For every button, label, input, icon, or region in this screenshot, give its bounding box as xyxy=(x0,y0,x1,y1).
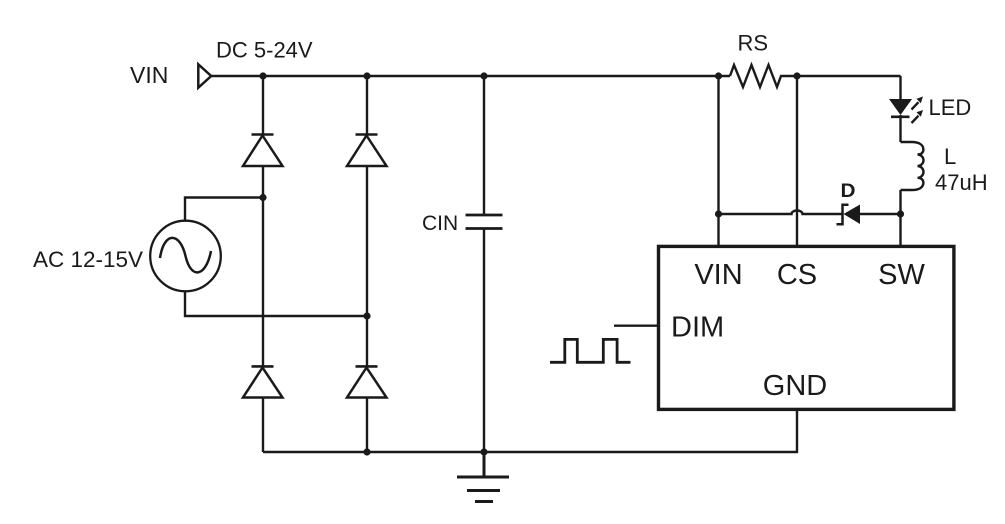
junction node ground rail / ground symbol xyxy=(480,448,487,455)
wire bridge column A upper xyxy=(262,76,264,135)
AC source V1 xyxy=(150,221,221,292)
wire top rail left xyxy=(212,75,731,77)
bridge diode D3 xyxy=(243,366,283,397)
svg-text:D: D xyxy=(841,181,856,202)
resistor RS xyxy=(730,65,785,87)
junction node top rail / bridge column B xyxy=(363,72,370,79)
wire CIN bottom xyxy=(483,229,485,453)
bridge diode D1 xyxy=(243,135,283,167)
PWM dimming waveform xyxy=(550,339,631,362)
wire LED to inductor xyxy=(899,115,901,142)
svg-text:DIM: DIM xyxy=(671,312,724,344)
svg-text:VIN: VIN xyxy=(694,259,742,291)
wire diode row with hop over CS column xyxy=(719,211,843,214)
svg-text:SW: SW xyxy=(878,259,925,291)
wire AC source bottom lead xyxy=(185,291,367,316)
svg-text:RS: RS xyxy=(738,31,769,56)
inductor L xyxy=(901,142,924,190)
svg-text:CIN: CIN xyxy=(422,212,458,235)
wire CS pin column xyxy=(796,76,798,246)
LED xyxy=(889,97,923,124)
wire bridge column B upper xyxy=(366,76,368,135)
junction node SW column / diode row xyxy=(897,210,904,217)
junction node top rail / bridge column A xyxy=(259,72,266,79)
bridge diode D2 xyxy=(347,135,387,167)
svg-text:AC 12-15V: AC 12-15V xyxy=(33,247,143,272)
junction node top rail / CIN xyxy=(480,72,487,79)
junction node top rail / VIN pin column xyxy=(715,72,722,79)
svg-text:GND: GND xyxy=(763,370,827,402)
wire DIM pin lead xyxy=(614,325,659,327)
junction node top rail / CS pin column xyxy=(793,72,800,79)
wire AC source top lead xyxy=(185,198,263,221)
junction node column A / AC top xyxy=(259,194,266,201)
wire bridge column B middle xyxy=(366,166,368,366)
svg-text:LED: LED xyxy=(929,95,972,120)
wire bridge column A lower xyxy=(262,398,264,453)
diode D (schottky) xyxy=(837,205,901,225)
wire top rail right xyxy=(785,75,901,77)
junction node VIN column / diode row xyxy=(715,210,722,217)
svg-text:DC 5-24V: DC 5-24V xyxy=(216,38,313,63)
wire bridge column B lower xyxy=(366,398,368,453)
wire SW column upper xyxy=(899,76,901,99)
wire VIN pin column xyxy=(717,76,719,246)
capacitor CIN xyxy=(466,215,503,229)
svg-text:47uH: 47uH xyxy=(935,170,988,195)
svg-text:CS: CS xyxy=(777,259,817,291)
svg-text:VIN: VIN xyxy=(130,62,168,88)
wire CIN top xyxy=(483,76,485,215)
ground xyxy=(457,452,509,502)
junction node column B / AC bottom xyxy=(363,312,370,319)
svg-text:L: L xyxy=(944,144,956,169)
wire GND pin to ground rail xyxy=(263,409,797,452)
wire SW column lower xyxy=(899,190,901,246)
input terminal VIN xyxy=(198,64,211,87)
wire bridge column A middle xyxy=(262,166,264,366)
bridge diode D4 xyxy=(347,366,387,397)
junction node ground rail / column B xyxy=(363,448,370,455)
IC U1 body xyxy=(659,246,954,409)
